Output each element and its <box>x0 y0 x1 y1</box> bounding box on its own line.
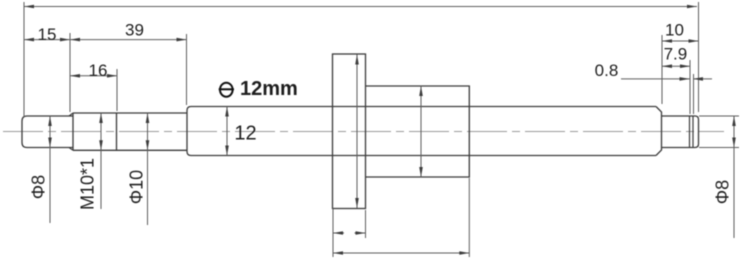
nut flange <box>333 54 366 209</box>
callout flange OD arrow <box>356 55 358 209</box>
thread section M10 <box>73 113 117 150</box>
callout 12 screw diameter <box>226 107 228 156</box>
svg-text:Φ8: Φ8 <box>712 180 732 204</box>
svg-text:15: 15 <box>38 25 57 44</box>
dimension 10 (right end) <box>662 35 699 104</box>
callout nut OD arrow <box>420 86 422 177</box>
shaft end Φ8 right <box>662 116 699 148</box>
shaft section Φ10 <box>117 113 188 150</box>
svg-text:12mm: 12mm <box>240 78 298 100</box>
dimension 7.9 <box>662 60 690 114</box>
svg-text:Φ10: Φ10 <box>126 170 146 204</box>
svg-text:12: 12 <box>234 123 256 145</box>
svg-text:7.9: 7.9 <box>664 45 688 64</box>
dimension 16 <box>70 69 117 111</box>
screw shaft Φ12 <box>187 107 662 156</box>
svg-text:Φ8: Φ8 <box>28 175 48 199</box>
dimension flange width <box>333 209 366 258</box>
callout Φ8 right <box>699 116 739 238</box>
callout Φ10 <box>147 113 149 225</box>
dimension overall length <box>24 2 699 117</box>
dimension 39 <box>70 34 187 105</box>
nut body <box>366 86 470 177</box>
svg-text:0.8: 0.8 <box>595 61 619 80</box>
callout M10*1 <box>100 113 102 209</box>
circlip groove <box>690 116 694 148</box>
callout Φ8 left <box>49 116 51 223</box>
svg-text:39: 39 <box>125 21 144 40</box>
dimension 0.8 leader <box>621 74 712 114</box>
svg-text:10: 10 <box>665 21 684 40</box>
dimension 15 <box>24 33 70 112</box>
svg-text:M10*1: M10*1 <box>77 158 97 210</box>
label Φ 12mm <box>220 83 233 97</box>
centerline <box>3 131 724 133</box>
dimension nut length <box>333 178 469 257</box>
shaft section Φ8 left <box>22 116 73 148</box>
svg-text:16: 16 <box>89 61 108 80</box>
thread section M10 chamfer <box>69 113 73 150</box>
